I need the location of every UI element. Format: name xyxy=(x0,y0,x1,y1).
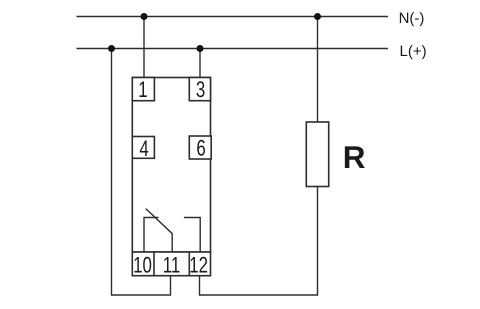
svg-text:4: 4 xyxy=(139,136,148,161)
terminal 6 box xyxy=(189,136,211,159)
svg-text:1: 1 xyxy=(138,77,147,102)
wire L(+) to terminal 3 xyxy=(199,49,201,78)
svg-text:12: 12 xyxy=(189,252,208,277)
node L(+) / terminal 11 junction xyxy=(108,45,115,52)
svg-text:R: R xyxy=(343,139,366,175)
changeover contact blade (terminal 11 common) xyxy=(146,209,172,252)
node N(-) / resistor junction xyxy=(314,13,321,20)
wire N(-) to resistor R top xyxy=(317,17,319,123)
terminal strip divider 10|11 xyxy=(153,252,155,276)
terminal 1 box xyxy=(132,78,154,101)
NO contact to terminal 12 xyxy=(184,218,200,253)
wire terminal 12 to resistor R bottom xyxy=(200,187,318,296)
node N(-) / terminal 1 junction xyxy=(141,13,148,20)
svg-text:11: 11 xyxy=(163,252,181,277)
terminal strip 10-11-12 xyxy=(132,252,210,276)
svg-text:N(-): N(-) xyxy=(399,10,425,27)
terminal 4 box xyxy=(132,137,154,159)
svg-text:6: 6 xyxy=(196,136,205,161)
svg-text:3: 3 xyxy=(196,77,205,102)
NC contact bar to terminal 10 xyxy=(144,218,159,253)
wire L(+) bus xyxy=(77,48,389,50)
terminal strip divider 11|12 xyxy=(188,252,190,276)
terminal 3 box xyxy=(189,78,210,101)
svg-text:10: 10 xyxy=(133,252,152,277)
svg-text:L(+): L(+) xyxy=(400,43,427,60)
wire N(-) to terminal 1 xyxy=(143,17,145,78)
resistor R xyxy=(306,122,328,187)
relay module outline xyxy=(132,78,210,253)
wire N(-) bus xyxy=(77,16,389,18)
wire L(+) down left side to terminal 11 xyxy=(112,49,171,296)
node L(+) / terminal 3 junction xyxy=(197,45,204,52)
